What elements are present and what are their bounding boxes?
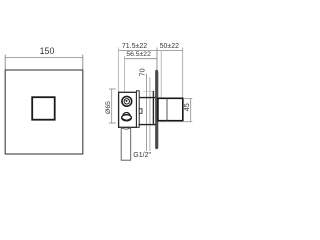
svg-text:Ø65: Ø65: [105, 101, 112, 114]
svg-text:71.5±22: 71.5±22: [122, 43, 147, 50]
svg-text:50±22: 50±22: [160, 43, 180, 50]
svg-text:45: 45: [182, 103, 191, 111]
svg-text:70: 70: [137, 68, 146, 76]
svg-text:G1/2": G1/2": [133, 152, 151, 159]
svg-text:56.5±22: 56.5±22: [126, 51, 151, 58]
svg-text:150: 150: [40, 46, 55, 56]
